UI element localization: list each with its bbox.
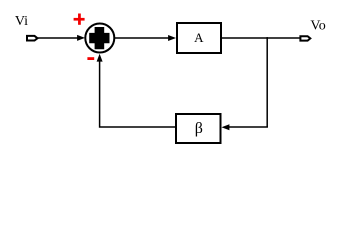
block A (forward gain) <box>177 23 221 53</box>
output port Vo <box>300 36 310 40</box>
wire Vi port to summing junction <box>38 35 85 41</box>
svg-text:β: β <box>195 120 203 137</box>
svg-text:Vi: Vi <box>15 14 28 29</box>
node N1 (output branch junction) <box>266 37 268 127</box>
block β (feedback network) <box>176 114 221 143</box>
wire block beta to summing junction <box>97 54 175 127</box>
label - (inverting input) <box>87 57 94 60</box>
label + (non-inverting input) <box>74 14 85 25</box>
wire output node to block beta <box>222 124 268 130</box>
wire summing junction to block A <box>115 35 177 41</box>
label Vi <box>15 14 28 29</box>
svg-text:A: A <box>194 30 204 45</box>
label Vo <box>310 19 325 34</box>
summing junction <box>85 24 114 53</box>
input port Vi <box>27 36 38 41</box>
svg-text:Vo: Vo <box>310 19 325 34</box>
wire block A to output port Vo <box>222 37 300 39</box>
